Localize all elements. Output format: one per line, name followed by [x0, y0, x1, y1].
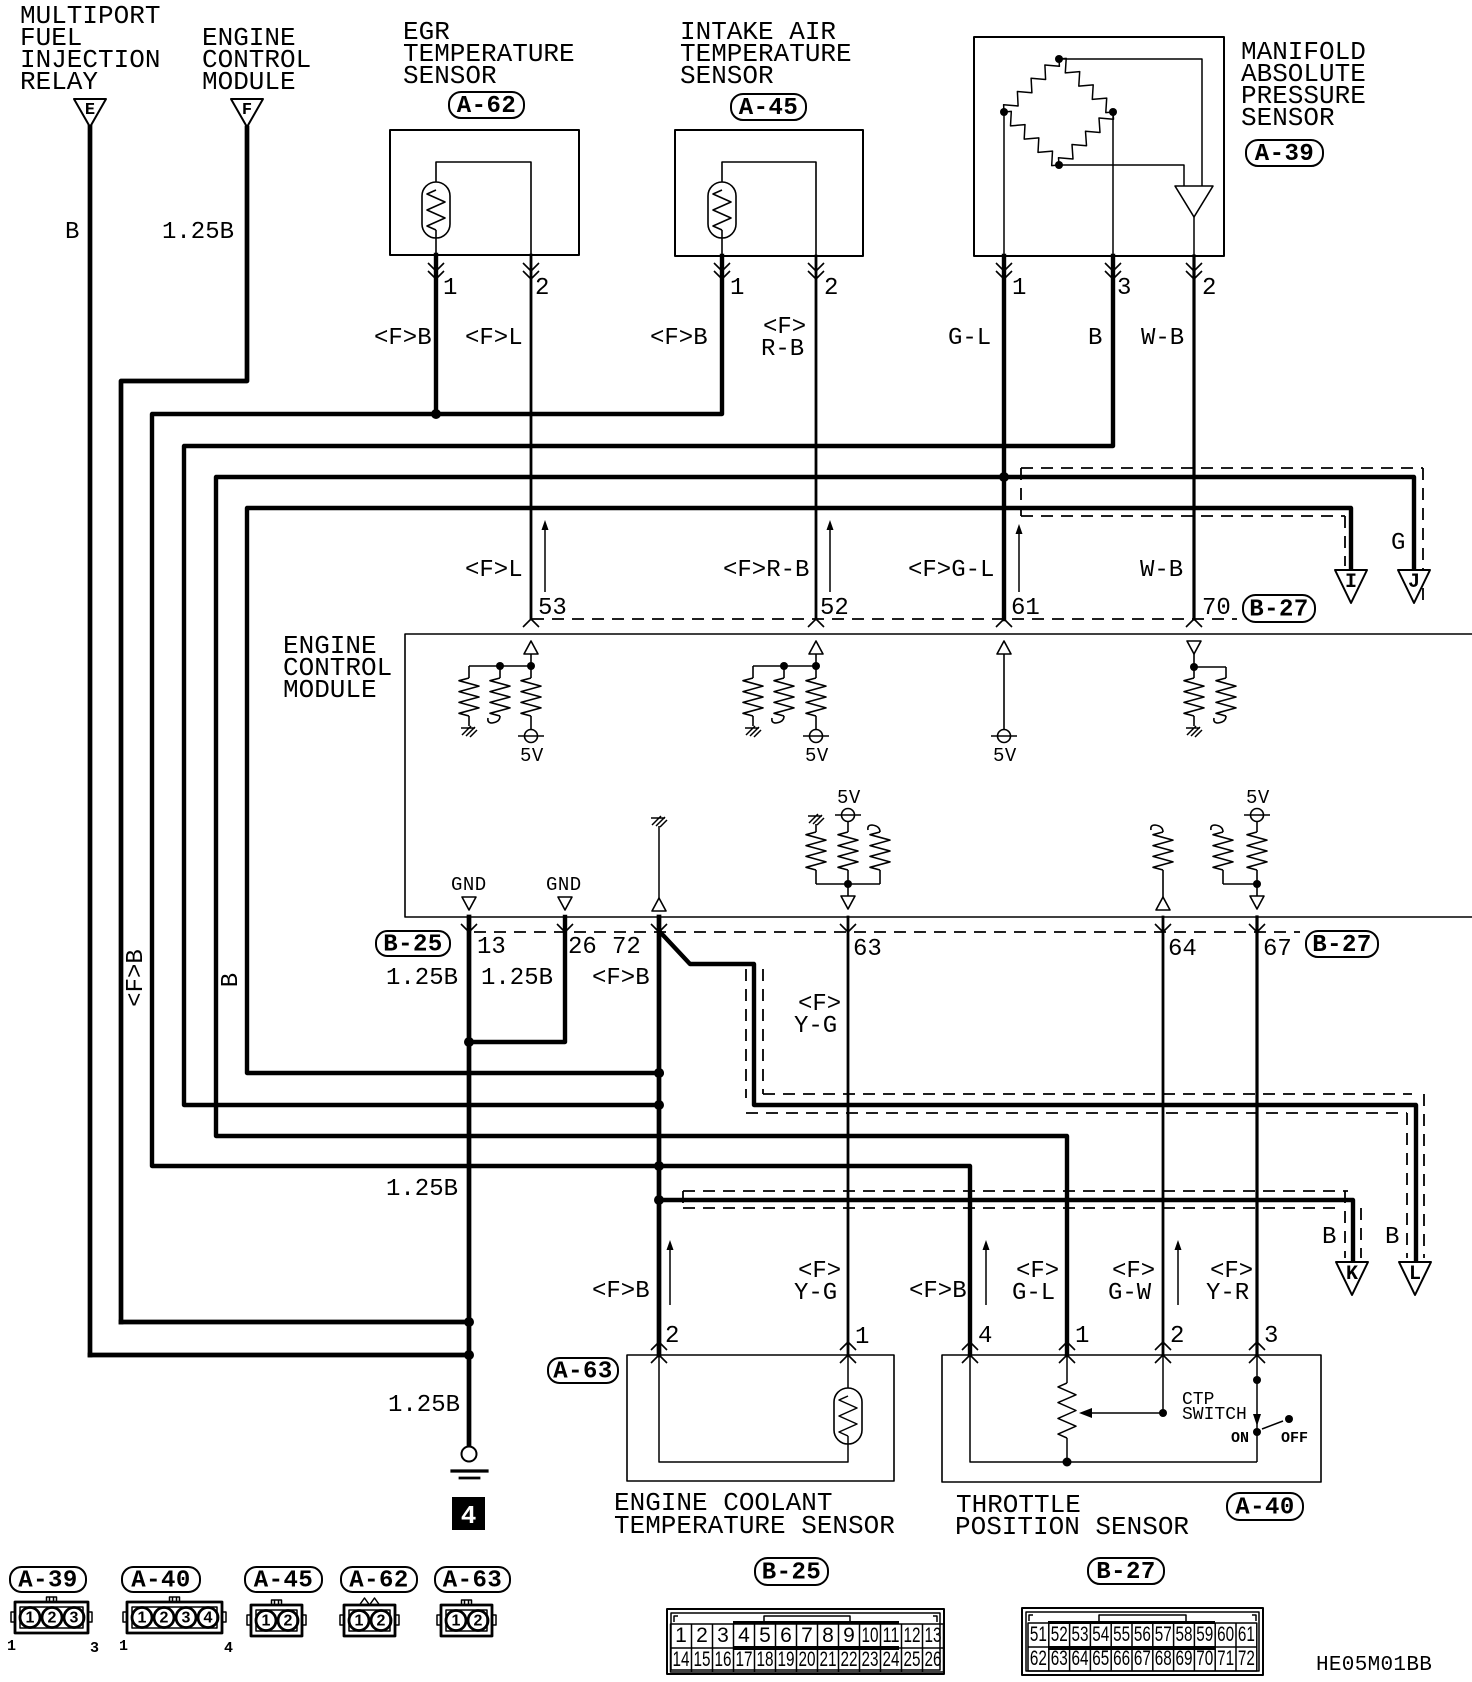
- junction G-L net at MAP pin1 wire: [999, 472, 1009, 482]
- svg-text:17: 17: [736, 1648, 753, 1671]
- svg-text:1: 1: [1012, 275, 1026, 302]
- svg-text:<F>L: <F>L: [465, 557, 523, 584]
- svg-text:72: 72: [612, 934, 641, 961]
- svg-text:<F>B: <F>B: [123, 949, 150, 1007]
- connector A-39 pin view: [15, 1602, 88, 1633]
- svg-text:1.25B: 1.25B: [386, 965, 458, 992]
- svg-text:7: 7: [801, 1624, 813, 1647]
- svg-text:J: J: [1408, 571, 1420, 594]
- wire TPS pin 3 to switch: [1256, 1355, 1258, 1429]
- bridge node right: [1109, 108, 1117, 116]
- wire bridge left node to pin 1: [1003, 112, 1005, 256]
- shield dashes lower-right run (to L): [746, 1094, 1424, 1258]
- node K (page reference): [1336, 1262, 1368, 1295]
- svg-text:K: K: [1346, 1263, 1358, 1286]
- wire label <F> Y-R (TPS pin 3): [1206, 1258, 1253, 1307]
- svg-text:10: 10: [862, 1624, 879, 1647]
- hook terminal (pin70 net, right): [1214, 716, 1226, 723]
- svg-text:62: 62: [1030, 1647, 1047, 1670]
- svg-text:2: 2: [284, 1613, 293, 1630]
- svg-text:61: 61: [1011, 595, 1040, 622]
- connector label B-27 (bottom): [1088, 1558, 1164, 1584]
- svg-text:70: 70: [1202, 595, 1231, 622]
- svg-text:8: 8: [822, 1624, 834, 1647]
- svg-text:A-63: A-63: [553, 1359, 613, 1386]
- svg-text:52: 52: [820, 595, 849, 622]
- pin 53 pull-up network bus: [469, 665, 531, 667]
- EGR temperature sensor box: [390, 130, 579, 255]
- wire switch to common: [1256, 1432, 1258, 1462]
- connector mark at ECM pin x=1163: [1155, 924, 1171, 932]
- svg-text:3: 3: [70, 1610, 79, 1627]
- svg-text:<F>B: <F>B: [650, 325, 708, 352]
- connector label A-45 (bottom row): [245, 1567, 322, 1592]
- connector mark at ECM pin x=848: [840, 924, 856, 932]
- svg-text:B-25: B-25: [383, 932, 443, 959]
- svg-text:B: B: [1322, 1224, 1336, 1251]
- label ENGINE CONTROL MODULE: [283, 631, 392, 705]
- svg-text:1.25B: 1.25B: [386, 1176, 458, 1203]
- connector mark at ECM pin x=1257: [1249, 924, 1265, 932]
- svg-text:64: 64: [1168, 936, 1197, 963]
- EGR pin 2 connector marks: [523, 263, 539, 279]
- shield dashes around K branch: [683, 1191, 1361, 1258]
- connector label B-27 (bottom): [1306, 931, 1378, 957]
- connector B-27 dashed line (top): [532, 618, 1237, 620]
- label ENGINE COOLANT TEMPERATURE SENSOR: [614, 1488, 895, 1541]
- svg-text:<F>B: <F>B: [592, 965, 650, 992]
- wire from E joining ground run: [90, 1353, 469, 1358]
- B-25 dark band: [733, 1621, 899, 1624]
- svg-text:A-62: A-62: [349, 1568, 409, 1595]
- svg-text:21: 21: [820, 1648, 837, 1671]
- wire pin 13 (1.25B) down to chassis ground: [467, 917, 472, 1445]
- svg-text:54: 54: [1092, 1623, 1109, 1646]
- svg-text:<F>L: <F>L: [465, 325, 523, 352]
- MAP pin 2 connector marks: [1186, 263, 1202, 279]
- svg-text:<F>G-L: <F>G-L: [908, 557, 994, 584]
- chassis ground (pin52 net): [745, 726, 761, 737]
- pin 26 ground triangle: [558, 897, 572, 910]
- svg-text:13: 13: [925, 1624, 942, 1647]
- connector label A-40: [1227, 1493, 1303, 1520]
- svg-text:1: 1: [138, 1610, 147, 1627]
- label CTP SWITCH: [1182, 1390, 1247, 1425]
- svg-text:2: 2: [377, 1613, 386, 1630]
- label MANIFOLD ABSOLUTE PRESSURE SENSOR: [1241, 37, 1366, 133]
- TPS connector marks x=970: [962, 1342, 978, 1350]
- wire label <F> Y-G (pin 72 branch): [794, 991, 841, 1040]
- svg-text:MODULE: MODULE: [202, 67, 296, 97]
- svg-text:70: 70: [1196, 1647, 1213, 1670]
- 5V supply (pin63 net): [842, 809, 855, 822]
- junction dots pin53 network: [496, 662, 504, 670]
- node J (page reference): [1398, 570, 1430, 603]
- svg-text:A-40: A-40: [131, 1568, 191, 1595]
- wire inside IAT sensor: [722, 162, 816, 256]
- junction F-wire to ground run: [464, 1317, 474, 1327]
- svg-text:59: 59: [1196, 1623, 1213, 1646]
- shield dashes around wires to I and J: [1021, 468, 1423, 600]
- svg-text:2: 2: [696, 1624, 708, 1647]
- svg-text:16: 16: [715, 1648, 732, 1671]
- svg-text:2: 2: [48, 1610, 57, 1627]
- svg-text:OFF: OFF: [1281, 1430, 1308, 1447]
- connector label A-40 (bottom row): [122, 1567, 200, 1592]
- chassis ground (pin70 net): [1186, 726, 1202, 737]
- junction dots pin52 network: [780, 662, 788, 670]
- wire W-B branch net: across to I triangle and down left to ground net: [247, 508, 1351, 1073]
- resistor (pin53 net, right): [530, 666, 532, 678]
- signal direction arrow (pin 61): [1018, 528, 1020, 592]
- svg-text:RELAY: RELAY: [20, 67, 98, 97]
- chassis ground above pin 72: [651, 816, 667, 827]
- svg-text:1.25B: 1.25B: [388, 1392, 460, 1419]
- wire EGR pin1 to junction: [434, 255, 438, 414]
- svg-text:GND: GND: [546, 874, 582, 896]
- wire B from node E down left side: [88, 127, 93, 1355]
- svg-text:24: 24: [883, 1648, 900, 1671]
- svg-text:A-62: A-62: [457, 93, 517, 120]
- svg-text:1: 1: [26, 1610, 35, 1627]
- svg-text:B: B: [1385, 1224, 1399, 1251]
- pin 72 triangle: [652, 898, 666, 911]
- svg-text:12: 12: [904, 1624, 921, 1647]
- resistor (pin63 net, left): [815, 824, 817, 832]
- EGR pin 1 connector marks: [428, 263, 444, 279]
- svg-text:4: 4: [204, 1610, 213, 1627]
- pin 61 connector mark: [996, 619, 1012, 627]
- svg-text:3: 3: [1264, 1323, 1278, 1350]
- svg-text:4: 4: [738, 1624, 750, 1647]
- junction B branch at pin72 wire: [654, 1195, 664, 1205]
- svg-text:22: 22: [841, 1648, 858, 1671]
- TPS connector marks x=1067: [1059, 1342, 1075, 1350]
- IAT pin 2 connector marks: [808, 263, 824, 279]
- resistor (pin63 net, middle): [847, 821, 849, 832]
- ground reference marker 4: [452, 1497, 485, 1531]
- svg-text:3: 3: [1117, 275, 1131, 302]
- 5V supply (pin52 net): [810, 730, 823, 743]
- svg-text:51: 51: [1030, 1623, 1047, 1646]
- wire pin 26 (1.25B) down and join pin 13: [469, 917, 565, 1042]
- svg-text:POSITION SENSOR: POSITION SENSOR: [955, 1512, 1189, 1542]
- hook terminal (pin53 net, middle): [488, 716, 500, 723]
- svg-text:6: 6: [780, 1624, 792, 1647]
- svg-text:B-27: B-27: [1249, 597, 1309, 624]
- connector A-62 pin view: [344, 1605, 395, 1636]
- svg-text:A-45: A-45: [739, 95, 799, 122]
- svg-text:<F>R-B: <F>R-B: [723, 557, 809, 584]
- pin 52 pull-up network bus: [753, 665, 816, 667]
- manifold absolute pressure sensor box: [974, 37, 1224, 256]
- resistor (pin53 net, left): [468, 666, 470, 678]
- connector A-63 pin view: [441, 1605, 492, 1636]
- svg-text:SENSOR: SENSOR: [680, 61, 774, 91]
- svg-text:2: 2: [665, 1323, 679, 1350]
- svg-text:1.25B: 1.25B: [481, 965, 553, 992]
- wire bridge top to amplifier: [1059, 59, 1202, 186]
- wire chassis to pin 72: [658, 826, 660, 898]
- svg-text:A-40: A-40: [1235, 1495, 1295, 1522]
- svg-text:65: 65: [1092, 1647, 1109, 1670]
- label THROTTLE POSITION SENSOR: [955, 1490, 1189, 1542]
- ECT connector marks x=848: [840, 1342, 856, 1350]
- pin 13 ground triangle: [462, 897, 476, 910]
- switch contact ON: [1253, 1428, 1261, 1436]
- svg-text:53: 53: [538, 595, 567, 622]
- pin 53 input triangle: [524, 641, 538, 654]
- connector label B-25: [376, 931, 450, 956]
- thermistor (EGR sensor element): [422, 182, 450, 255]
- resistor (pin67 net, right): [1256, 821, 1258, 832]
- IAT pin 1 connector marks: [714, 263, 730, 279]
- svg-text:26: 26: [925, 1648, 942, 1671]
- svg-text:23: 23: [862, 1648, 879, 1671]
- svg-text:<F>B: <F>B: [592, 1278, 650, 1305]
- svg-text:L: L: [1409, 1263, 1421, 1286]
- junction dot pin70 network: [1190, 663, 1198, 671]
- TPS connector marks x=1257: [1249, 1342, 1265, 1350]
- svg-text:1: 1: [355, 1613, 364, 1630]
- junction dot pin67 network: [1253, 880, 1261, 888]
- svg-text:A-39: A-39: [1255, 141, 1315, 168]
- svg-text:2: 2: [1170, 1323, 1184, 1350]
- svg-text:1.25B: 1.25B: [162, 219, 234, 246]
- connector label B-25 (bottom): [755, 1558, 828, 1585]
- svg-text:2: 2: [474, 1613, 483, 1630]
- hook terminal (pin63 net, right): [868, 825, 880, 832]
- junction <F>B row y1166: [654, 1161, 664, 1171]
- connector label A-62: [449, 92, 524, 118]
- junction pins 13/26: [464, 1037, 474, 1047]
- bridge resistor top-right: [1059, 58, 1113, 112]
- svg-text:5V: 5V: [805, 745, 829, 767]
- svg-text:B: B: [1088, 325, 1102, 352]
- wire EGR pin2 to ECM pin53: [530, 255, 533, 619]
- svg-text:3: 3: [182, 1610, 191, 1627]
- svg-text:<F>B: <F>B: [909, 1278, 967, 1305]
- wire 1.25B from node F down: [121, 128, 247, 1322]
- svg-text:B: B: [218, 973, 245, 987]
- svg-text:57: 57: [1155, 1623, 1172, 1646]
- junction E-wire to ground run: [464, 1350, 474, 1360]
- svg-text:52: 52: [1051, 1623, 1068, 1646]
- intake air temperature sensor box: [675, 130, 863, 256]
- junction on pin 3 wire: [1253, 1376, 1261, 1384]
- svg-text:2: 2: [160, 1610, 169, 1627]
- svg-text:26: 26: [568, 934, 597, 961]
- pin 70 connector mark: [1186, 619, 1202, 627]
- wire B net: MAP pin3 down, across, down, joining ground net: [184, 256, 1113, 1105]
- throttle position sensor box: [942, 1355, 1321, 1482]
- svg-text:1: 1: [443, 275, 457, 302]
- svg-text:SENSOR: SENSOR: [1241, 103, 1335, 133]
- junction dot pin63 network: [844, 880, 852, 888]
- pin 63 network bus: [816, 883, 880, 885]
- resistor (pin63 net, right): [870, 832, 890, 870]
- junction TPS pin 2 wiper: [1159, 1409, 1167, 1417]
- switch direction arrow: [1253, 1414, 1261, 1426]
- wire <F>Y-G branch from pin 72 through shield to L triangle: [661, 933, 1416, 1262]
- wire MAP pin2 (W-B) down to ECM pin 70: [1192, 256, 1195, 619]
- svg-text:B-27: B-27: [1096, 1559, 1156, 1586]
- pin 67 output triangle: [1256, 884, 1258, 896]
- chassis ground (pin53 net): [461, 726, 477, 737]
- bridge node top: [1055, 55, 1063, 63]
- hook terminal (pin52 net, middle): [772, 716, 784, 723]
- connector A-40 pin view: [127, 1602, 222, 1633]
- svg-text:W-B: W-B: [1141, 325, 1184, 352]
- label EGR TEMPERATURE SENSOR: [403, 17, 575, 91]
- svg-text:71: 71: [1217, 1647, 1234, 1670]
- svg-text:68: 68: [1155, 1647, 1172, 1670]
- resistor (pin70 net, left): [1193, 667, 1195, 678]
- wire pin 61 to 5V: [1003, 654, 1005, 729]
- wire amplifier out to pin 2: [1193, 217, 1195, 256]
- 5V supply (pin67 net): [1251, 809, 1264, 822]
- svg-text:14: 14: [673, 1648, 690, 1671]
- svg-text:E: E: [85, 101, 95, 120]
- signal direction arrow (TPS pin 2): [1177, 1244, 1179, 1305]
- svg-text:67: 67: [1134, 1647, 1151, 1670]
- pin 53 connector mark: [523, 619, 539, 627]
- wire ECM pin 64 to TPS pin 2: [1162, 917, 1165, 1355]
- svg-text:63: 63: [853, 936, 882, 963]
- thermistor (IAT sensor element): [708, 182, 736, 256]
- svg-text:11: 11: [883, 1624, 900, 1647]
- junction B net to pin72 ground wire: [654, 1100, 664, 1110]
- connector label A-63: [548, 1358, 618, 1383]
- wire label <F> G-W (TPS pin 2): [1108, 1258, 1155, 1307]
- connector mark at ECM pin x=469: [461, 924, 477, 932]
- label ENGINE CONTROL MODULE (top feed): [202, 23, 311, 97]
- svg-text:G-L: G-L: [948, 325, 991, 352]
- node F (from engine control module): [231, 99, 263, 127]
- svg-text:A-63: A-63: [443, 1568, 503, 1595]
- chassis ground symbol (main ground point): [452, 1447, 487, 1479]
- shield dashes around Y-G drop wire: [746, 969, 763, 1098]
- wire G-L net: TPS pin1 up, across, up, across to J triangle: [216, 477, 1414, 1355]
- signal direction arrow (ECT pin 2): [669, 1244, 671, 1305]
- hook terminal (pin67 net, left): [1211, 825, 1223, 832]
- hook terminal (pin64): [1151, 825, 1163, 832]
- connector label A-39 (bottom row): [10, 1567, 86, 1592]
- resistor (pin64): [1153, 832, 1173, 870]
- svg-text:1: 1: [855, 1324, 869, 1351]
- B-27 dark band: [1048, 1621, 1215, 1624]
- bridge resistor bottom-left: [1004, 111, 1059, 165]
- wire bridge bottom to amplifier: [1059, 165, 1184, 186]
- svg-text:13: 13: [477, 934, 506, 961]
- connector label B-27 (top): [1243, 595, 1315, 622]
- connector label A-63 (bottom row): [435, 1567, 510, 1592]
- svg-text:1: 1: [1075, 1323, 1089, 1350]
- amplifier (MAP sensor): [1175, 186, 1213, 217]
- connector label A-39: [1246, 140, 1323, 166]
- svg-text:B-27: B-27: [1312, 932, 1372, 959]
- svg-text:G-W: G-W: [1108, 1280, 1152, 1307]
- wiper wire from TPS pin 2: [1092, 1355, 1163, 1413]
- svg-text:67: 67: [1263, 936, 1292, 963]
- node L (page reference): [1399, 1262, 1431, 1295]
- svg-text:<F>B: <F>B: [374, 325, 432, 352]
- connector label A-62 (bottom row): [341, 1567, 417, 1592]
- pin 70 output triangle: [1187, 641, 1201, 654]
- svg-text:5V: 5V: [837, 787, 861, 809]
- svg-text:B-25: B-25: [762, 1560, 822, 1587]
- svg-text:61: 61: [1238, 1623, 1255, 1646]
- svg-text:A-45: A-45: [254, 1568, 314, 1595]
- wire TPS pin 4 inside: [970, 1355, 1257, 1462]
- svg-text:Y-G: Y-G: [794, 1280, 837, 1307]
- svg-text:2: 2: [535, 275, 549, 302]
- label INTAKE AIR TEMPERATURE SENSOR: [680, 17, 852, 91]
- svg-text:1: 1: [7, 1638, 16, 1655]
- svg-text:18: 18: [757, 1648, 774, 1671]
- svg-text:5V: 5V: [1246, 787, 1270, 809]
- svg-text:58: 58: [1176, 1623, 1193, 1646]
- wire bridge right node to pin 3: [1112, 112, 1114, 256]
- svg-text:69: 69: [1176, 1647, 1193, 1670]
- svg-text:W-B: W-B: [1140, 557, 1183, 584]
- svg-text:19: 19: [778, 1648, 795, 1671]
- svg-text:4: 4: [461, 1501, 477, 1531]
- MAP pin 1 connector marks: [996, 263, 1012, 279]
- switch contact OFF: [1285, 1415, 1293, 1423]
- wire <F>B net: IAT pin1 down, across, down left side, to TPS pin 4: [152, 256, 970, 1355]
- connector dashed line (bottom B-25/B-27): [474, 931, 1300, 933]
- svg-text:1: 1: [262, 1613, 271, 1630]
- svg-text:55: 55: [1113, 1623, 1130, 1646]
- connector A-45 pin view: [251, 1605, 302, 1636]
- svg-text:66: 66: [1113, 1647, 1130, 1670]
- pin 67 network bus: [1223, 883, 1257, 885]
- resistor (pin52 net, left): [752, 666, 754, 678]
- potentiometer resistor (TPS): [1066, 1355, 1068, 1383]
- svg-text:72: 72: [1238, 1647, 1255, 1670]
- svg-text:GND: GND: [451, 874, 487, 896]
- svg-text:G: G: [1391, 530, 1405, 557]
- node I (page reference): [1335, 570, 1367, 603]
- svg-text:I: I: [1345, 571, 1357, 594]
- pin 70 network bus: [1194, 666, 1226, 668]
- svg-text:HE05M01BB: HE05M01BB: [1316, 1654, 1432, 1677]
- svg-text:TEMPERATURE SENSOR: TEMPERATURE SENSOR: [614, 1511, 895, 1541]
- junction W-B branch to pin72 ground wire: [654, 1068, 664, 1078]
- wire B branch to K triangle: [659, 1200, 1353, 1262]
- svg-text:3: 3: [717, 1624, 729, 1647]
- resistor (pin52 net, right): [815, 666, 817, 678]
- svg-text:R-B: R-B: [761, 336, 804, 363]
- svg-text:B: B: [65, 219, 79, 246]
- pin 63 output triangle: [847, 884, 849, 896]
- resistor (pin52 net, middle): [783, 666, 785, 678]
- svg-text:F: F: [242, 101, 252, 120]
- wire inside EGR sensor: [436, 162, 531, 255]
- node E (from multiport fuel injection relay): [74, 99, 106, 127]
- svg-text:2: 2: [1202, 275, 1216, 302]
- wire ECM pin 63 to ECT pin 1: [847, 917, 850, 1355]
- pin 52 connector mark: [808, 619, 824, 627]
- wire IAT pin2 to ECM pin52: [815, 256, 818, 619]
- signal direction arrow (pin 53): [544, 524, 546, 592]
- svg-text:1: 1: [675, 1624, 687, 1647]
- connector mark at ECM pin x=659: [651, 924, 667, 932]
- wire label <F> Y-G (ECT pin 1): [794, 1258, 841, 1307]
- svg-text:9: 9: [843, 1624, 855, 1647]
- wire label <F> R-B (IAT pin2): [761, 314, 806, 363]
